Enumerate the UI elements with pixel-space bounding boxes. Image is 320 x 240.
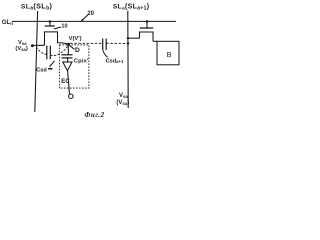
node V junction dot — [67, 43, 70, 46]
wire gate line GL — [12, 20, 176, 22]
svg-text:GLn: GLn — [2, 19, 13, 26]
svg-text:Cpix′: Cpix′ — [74, 58, 89, 64]
wire Q2 drain to box B — [153, 40, 157, 42]
svg-text:Csda+1: Csda+1 — [106, 59, 124, 65]
capacitor Csda+1 plates — [102, 39, 104, 51]
transistor Q1 gate lead — [49, 21, 51, 26]
leader label 20 — [81, 15, 88, 21]
box B — [157, 41, 179, 65]
transistor Q2 gate bar — [140, 27, 153, 29]
svg-text:Csd: Csd — [36, 68, 47, 74]
wire Q1 source to SLa — [32, 44, 44, 46]
junction dot SLa+1 / Q2 — [127, 37, 129, 39]
svg-text:(Vsa): (Vsa) — [15, 46, 27, 52]
dashed wire Csda+1 to SLa+1 — [106, 42, 127, 44]
leader label D — [70, 45, 75, 49]
wire source line SLa (left) — [35, 11, 38, 112]
junction dot GL/Q1 — [49, 20, 52, 23]
transistor Q2 gate lead — [146, 21, 148, 27]
svg-text:(Vsa): (Vsa) — [116, 100, 129, 106]
dashed wire SLa to Csda — [36, 47, 47, 55]
junction dot SLa / Vsa — [31, 44, 34, 47]
capacitor Csda plates — [46, 46, 48, 60]
transistor Q1 channel — [45, 32, 58, 45]
svg-text:Vsa: Vsa — [119, 93, 128, 99]
capacitor Cpix' plates — [62, 54, 73, 56]
leader label Csda+1 — [103, 50, 108, 57]
svg-text:SLa(SLa+1): SLa(SLa+1) — [113, 3, 150, 11]
wire node V down to Cpix — [67, 44, 69, 54]
svg-text:Фиг.2: Фиг.2 — [84, 111, 104, 119]
svg-text:D: D — [75, 47, 80, 54]
dashed wire node V to Csda+1 — [70, 42, 103, 44]
dashed element box D — [59, 45, 89, 88]
svg-text:10: 10 — [61, 23, 67, 29]
svg-text:B: B — [167, 50, 172, 59]
EC element (triangle) — [62, 61, 72, 63]
leader label Csda — [50, 61, 55, 67]
leader label 10 — [54, 27, 61, 29]
transistor Q2 channel — [140, 32, 154, 41]
wire Q1 drain to node V — [58, 43, 69, 44]
svg-text:20: 20 — [87, 11, 94, 17]
wire source line SLa+1 (right) — [127, 11, 129, 108]
dashed wire Csda to node V — [50, 45, 68, 55]
svg-text:V(V′): V(V′) — [69, 36, 82, 42]
terminal circle — [69, 94, 73, 98]
wire EC to terminal — [68, 71, 70, 94]
junction dot SLa+1 / Csd — [127, 42, 130, 45]
svg-text:EC: EC — [61, 79, 70, 85]
wire Cpix to EC — [67, 58, 69, 62]
transistor Q1 gate bar — [45, 25, 55, 27]
wire Q2 source to SLa+1 — [128, 37, 140, 39]
junction dot GL/Q2 — [146, 20, 149, 23]
svg-text:SLa(SLb): SLa(SLb) — [21, 1, 53, 11]
